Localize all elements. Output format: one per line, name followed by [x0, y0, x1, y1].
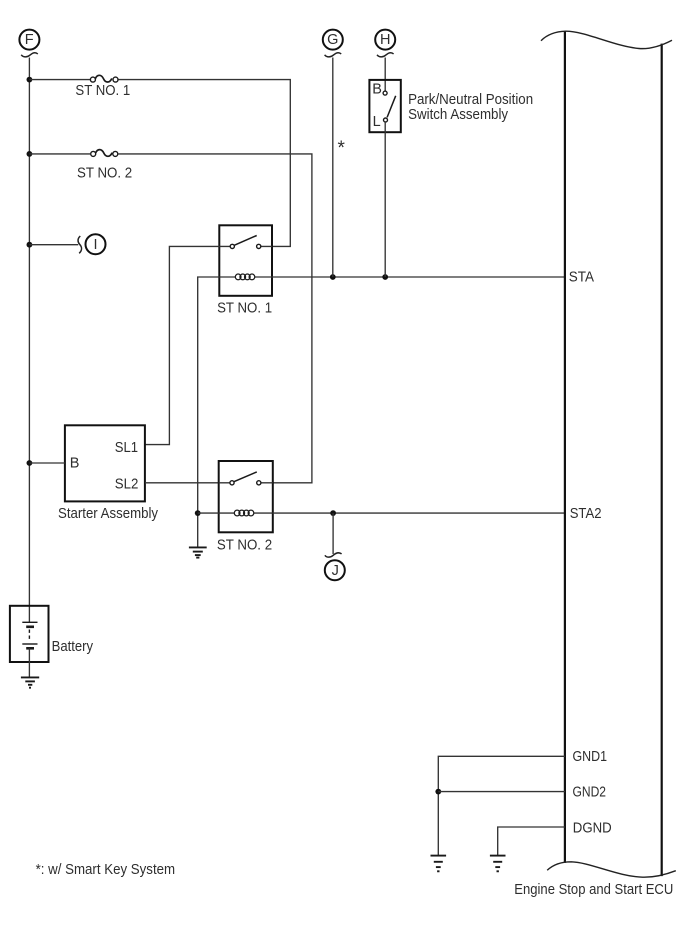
svg-text:F: F — [25, 32, 34, 48]
relay ST NO.1 box — [219, 225, 272, 295]
ground battery — [21, 677, 39, 687]
node junction STA2/J — [330, 510, 336, 516]
wire fuse ST NO.1 to relay ST NO.1 switch — [118, 80, 290, 247]
svg-text:ST NO. 2: ST NO. 2 — [217, 537, 272, 553]
node junction H/STA — [382, 274, 388, 280]
relay ST NO.2 box — [219, 461, 273, 532]
svg-text:SL2: SL2 — [115, 477, 139, 493]
ECU left edge — [564, 31, 566, 863]
ECU bottom torn edge — [547, 862, 676, 877]
ground DGND — [490, 856, 506, 872]
park/neutral switch contact L — [384, 118, 388, 122]
battery cell 1 short plate — [26, 625, 34, 628]
svg-text:STA: STA — [569, 270, 595, 286]
park/neutral position switch box — [369, 80, 400, 132]
wire relay ST NO.1 coil to ground rail — [198, 277, 220, 547]
node junction F/I — [27, 242, 33, 248]
wire STA: relay ST NO.1 coil to ECU — [272, 276, 565, 278]
svg-text:DGND: DGND — [573, 820, 612, 836]
wire rail to connector I — [29, 244, 78, 246]
connector I break squiggle — [78, 236, 81, 253]
connector G — [323, 30, 343, 57]
svg-text:ST NO. 2: ST NO. 2 — [77, 165, 132, 181]
wire relay ST NO.1 switch to SL1 — [145, 246, 219, 444]
wire G to STA — [332, 58, 334, 278]
node junction coil ground / ST NO.2 coil — [195, 510, 201, 516]
svg-text:ST NO. 1: ST NO. 1 — [217, 300, 272, 316]
battery box — [10, 606, 49, 662]
wire battery negative to ground — [28, 648, 30, 677]
ECU right edge — [661, 44, 663, 877]
connector F — [19, 30, 39, 57]
wire rail to fuse ST NO.1 — [29, 79, 90, 81]
svg-text:Park/Neutral Position: Park/Neutral Position — [408, 92, 533, 108]
node junction GND2 — [435, 789, 441, 795]
wire SL2 to relay ST NO.2 switch — [145, 482, 219, 484]
battery dashed link — [28, 630, 30, 641]
starter assembly box — [65, 425, 145, 501]
battery cell 1 long plate — [22, 621, 37, 623]
connector J break squiggle — [325, 553, 342, 557]
svg-text:STA2: STA2 — [570, 506, 602, 522]
svg-text:H: H — [380, 32, 390, 48]
svg-text:B: B — [372, 81, 382, 97]
svg-text:GND1: GND1 — [573, 749, 608, 765]
svg-text:ST NO. 1: ST NO. 1 — [75, 83, 130, 99]
ECU top torn edge — [541, 31, 672, 48]
fuse ST NO. 2 — [91, 150, 118, 157]
battery cell 2 long plate — [22, 643, 37, 645]
node junction F/ST NO.2 — [27, 151, 33, 157]
wire STA2: relay ST NO.2 coil to ECU — [273, 512, 565, 514]
svg-text:Switch Assembly: Switch Assembly — [408, 107, 509, 123]
svg-text:SL1: SL1 — [115, 440, 138, 456]
wire GND2 — [438, 791, 565, 793]
connector J — [325, 560, 345, 580]
relay ST NO.2 switch — [219, 472, 273, 485]
svg-text:L: L — [373, 114, 381, 130]
relay ST NO.2 coil — [219, 510, 273, 516]
wire park/neutral switch pin L to STA — [384, 122, 386, 277]
connector I — [86, 234, 106, 254]
svg-text:J: J — [332, 563, 339, 579]
svg-text:Battery: Battery — [52, 639, 94, 655]
connector H — [375, 30, 395, 57]
relay ST NO.1 coil — [219, 274, 272, 280]
node junction F/B — [27, 460, 33, 466]
svg-text:Starter Assembly: Starter Assembly — [58, 506, 159, 522]
svg-text:Engine Stop and Start ECU: Engine Stop and Start ECU — [514, 882, 673, 898]
wire left rail — [28, 58, 30, 623]
wire DGND — [498, 827, 565, 855]
ground GND1/GND2 — [431, 856, 447, 872]
node junction F/ST NO.1 — [27, 77, 33, 83]
fuse ST NO. 1 — [90, 75, 118, 82]
park/neutral switch blade — [387, 96, 396, 118]
wire GND1 — [438, 756, 565, 855]
wire rail to starter B — [29, 462, 65, 464]
svg-text:G: G — [327, 32, 338, 48]
svg-text:I: I — [93, 237, 97, 253]
svg-text:B: B — [70, 456, 80, 472]
park/neutral switch contact B — [383, 91, 387, 95]
wire ground rail to relay ST NO.2 coil — [198, 512, 219, 514]
node junction G/STA — [330, 274, 336, 280]
svg-text:*: * — [338, 138, 346, 159]
battery cell 2 short plate — [26, 647, 34, 650]
wire rail to fuse ST NO.2 — [29, 153, 90, 155]
svg-text:GND2: GND2 — [573, 784, 607, 800]
wire H to park/neutral switch pin B — [384, 58, 386, 92]
relay ST NO.1 switch — [219, 236, 272, 249]
ground below relay ST NO.2 — [189, 547, 207, 557]
wire STA2 to connector J — [332, 513, 334, 554]
svg-text:*: w/ Smart Key System: *: w/ Smart Key System — [36, 862, 176, 878]
wire fuse ST NO.2 to relay ST NO.2 switch — [118, 154, 312, 483]
